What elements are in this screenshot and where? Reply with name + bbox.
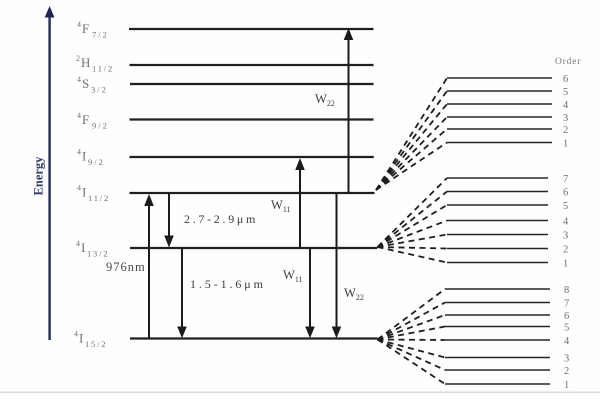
fan1 dashed line to sublevel 3 <box>376 117 447 190</box>
level 4I13/2 label <box>76 239 109 259</box>
W22 decay arrow (down, 4I11/2 to 4I15/2) <box>332 193 342 338</box>
svg-text:2: 2 <box>76 54 80 63</box>
svg-text:9/2: 9/2 <box>92 121 109 131</box>
level 4F9/2 line <box>130 118 374 120</box>
level 4I13/2 line <box>130 247 377 249</box>
svg-text:4: 4 <box>77 75 81 84</box>
fan2 dashed line to sublevel 3 <box>378 235 448 248</box>
svg-text:1: 1 <box>563 259 568 270</box>
fan1 sublevel 5 line <box>447 90 552 92</box>
svg-text:F: F <box>82 112 89 127</box>
level 4F9/2 label <box>77 111 109 131</box>
svg-text:Energy: Energy <box>32 156 46 196</box>
svg-text:7/2: 7/2 <box>92 30 109 40</box>
svg-text:13/2: 13/2 <box>87 249 109 259</box>
Stark fan of 4I15/2 (8 sublevels) <box>378 289 446 384</box>
level 2H11/2 label <box>76 54 114 74</box>
fan2 dashed line to sublevel 4 <box>378 221 448 248</box>
bottom separator line <box>0 392 600 394</box>
svg-text:2.7-2.9μm: 2.7-2.9μm <box>184 212 258 226</box>
svg-text:4: 4 <box>563 100 569 111</box>
fan1 sublevel 1 line <box>447 142 552 144</box>
pump arrow 976nm (up, 4I15/2 to 4I11/2) <box>144 194 154 339</box>
level 4I9/2 label <box>77 148 105 168</box>
svg-text:976nm: 976nm <box>106 260 146 274</box>
svg-text:S: S <box>82 76 89 91</box>
svg-text:1: 1 <box>564 380 569 391</box>
fan3 sublevel 4 line <box>445 339 550 341</box>
fan3 dashed line to sublevel 7 <box>378 303 446 340</box>
svg-text:3: 3 <box>563 231 568 242</box>
W11 decay arrow (down, 4I13/2 to 4I15/2) <box>305 248 315 338</box>
svg-text:7: 7 <box>563 174 568 185</box>
fan1 dashed line to sublevel 1 <box>376 143 447 191</box>
fan3 dashed line to sublevel 4 <box>378 339 446 342</box>
fan3 dashed line to sublevel 8 <box>378 289 446 340</box>
W22 upconversion arrow (up, 4I11/2 to 4F7/2) <box>344 28 354 193</box>
svg-text:F: F <box>82 21 89 36</box>
svg-text:2: 2 <box>563 245 568 256</box>
svg-text:5: 5 <box>563 87 568 98</box>
fan3 dashed line to sublevel 2 <box>378 340 446 371</box>
svg-text:2: 2 <box>564 366 569 377</box>
svg-text:1.5-1.6μm: 1.5-1.6μm <box>190 277 266 291</box>
fan3 sublevel 5 line <box>445 326 550 328</box>
svg-text:8: 8 <box>564 285 569 296</box>
svg-text:I: I <box>79 331 83 346</box>
fan1 sublevel 4 line <box>447 103 552 105</box>
fan2 sublevel 4 line <box>447 220 548 222</box>
svg-text:7: 7 <box>564 299 569 310</box>
fan2 sublevel 3 line <box>447 234 548 236</box>
svg-text:I: I <box>82 185 86 200</box>
Stark fan of 4I13/2 (7 sublevels) <box>378 178 448 263</box>
svg-text:5: 5 <box>563 201 568 212</box>
svg-text:11/2: 11/2 <box>88 193 110 203</box>
level 4I11/2 label <box>77 184 110 204</box>
svg-text:15/2: 15/2 <box>85 339 107 349</box>
fan2 dashed line to sublevel 1 <box>378 247 448 263</box>
energy axis <box>45 6 55 340</box>
svg-text:I: I <box>81 240 85 255</box>
fan1 dashed line to sublevel 4 <box>376 104 447 190</box>
fan1 dashed line to sublevel 2 <box>376 129 447 190</box>
fan2 dashed line to sublevel 6 <box>378 192 448 248</box>
svg-text:4: 4 <box>564 336 570 347</box>
fan2 sublevel 5 line <box>447 204 548 206</box>
svg-text:4: 4 <box>563 217 569 228</box>
svg-text:9/2: 9/2 <box>88 157 105 167</box>
fan2 sublevel 1 line <box>447 262 548 264</box>
Stark fan of 4I11/2 (6 sublevels) <box>376 78 447 190</box>
svg-text:3/2: 3/2 <box>91 85 108 95</box>
level 4I11/2 line <box>130 192 375 194</box>
fan1 sublevel 2 line <box>447 128 552 130</box>
level 4F7/2 line <box>129 28 374 30</box>
svg-text:1: 1 <box>563 139 568 150</box>
svg-text:4: 4 <box>77 111 81 120</box>
fan1 sublevel 6 line <box>447 77 552 79</box>
level 4F7/2 label <box>77 20 109 40</box>
level 4I15/2 line <box>130 337 378 339</box>
level 4I15/2 label <box>74 330 107 350</box>
level 4S3/2 label <box>77 75 108 95</box>
svg-text:Order: Order <box>555 57 581 67</box>
emission arrow 2.7-2.9um (down, 4I11/2 to 4I13/2) <box>164 193 174 248</box>
svg-text:2: 2 <box>563 125 568 136</box>
fan2 sublevel 2 line <box>447 248 548 250</box>
W11 upconversion arrow (up, 4I13/2 to 4I9/2) <box>295 158 305 248</box>
svg-text:6: 6 <box>564 311 569 322</box>
svg-text:4: 4 <box>77 184 81 193</box>
fan2 sublevel 6 line <box>447 191 548 193</box>
svg-text:I: I <box>82 149 86 164</box>
fan3 sublevel 3 line <box>445 357 550 359</box>
svg-text:3: 3 <box>563 113 568 124</box>
svg-text:H: H <box>81 55 90 70</box>
fan2 dashed line to sublevel 5 <box>378 205 448 247</box>
fan3 sublevel 8 line <box>445 288 550 290</box>
fan3 sublevel 2 line <box>445 369 550 371</box>
fan2 sublevel 7 line <box>447 177 548 179</box>
level 4I9/2 line <box>130 156 374 158</box>
svg-text:5: 5 <box>564 323 569 334</box>
emission arrow 1.5-1.6um (down, 4I13/2 to 4I15/2) <box>177 248 187 338</box>
fan2 dashed line to sublevel 7 <box>378 178 448 247</box>
svg-text:3: 3 <box>564 354 569 365</box>
svg-text:4: 4 <box>77 20 81 29</box>
level 4S3/2 line <box>130 83 374 85</box>
svg-text:4: 4 <box>77 148 81 157</box>
fan3 dashed line to sublevel 3 <box>378 340 446 358</box>
fan3 dashed line to sublevel 1 <box>378 340 446 385</box>
fan3 dashed line to sublevel 6 <box>378 315 446 340</box>
fan2 dashed line to sublevel 2 <box>378 247 448 249</box>
fan3 sublevel 6 line <box>445 314 550 316</box>
svg-text:4: 4 <box>74 330 78 339</box>
svg-text:6: 6 <box>563 74 568 85</box>
fan3 dashed line to sublevel 5 <box>378 327 446 340</box>
fan3 sublevel 1 line <box>445 383 550 385</box>
level 2H11/2 line <box>130 64 374 66</box>
fan1 dashed line to sublevel 5 <box>376 91 447 190</box>
svg-text:4: 4 <box>76 239 80 248</box>
svg-text:6: 6 <box>563 188 568 199</box>
fan1 sublevel 3 line <box>447 116 552 118</box>
fan3 sublevel 7 line <box>445 302 550 304</box>
svg-text:11/2: 11/2 <box>92 64 114 74</box>
fan1 dashed line to sublevel 6 <box>376 78 447 190</box>
